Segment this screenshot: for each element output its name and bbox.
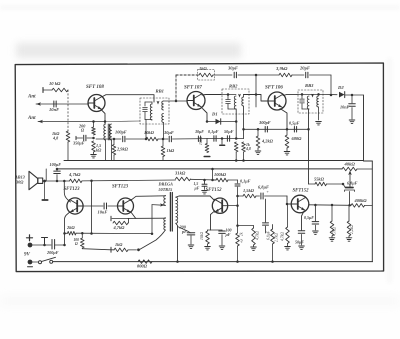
svg-text:SFT152: SFT152 (206, 188, 223, 193)
svg-text:kΩ: kΩ (96, 148, 102, 153)
svg-text:2k: 2k (240, 232, 244, 236)
svg-text:1kΩ: 1kΩ (115, 242, 123, 247)
svg-text:4,2kΩ: 4,2kΩ (261, 139, 274, 144)
svg-text:0,1µF: 0,1µF (240, 179, 251, 184)
svg-text:350µF: 350µF (72, 141, 85, 146)
svg-text:10 kΩ: 10 kΩ (49, 81, 61, 86)
svg-text:40kΩ: 40kΩ (344, 162, 356, 167)
svg-text:3,9kΩ: 3,9kΩ (275, 66, 288, 71)
svg-text:680Ω: 680Ω (292, 136, 303, 141)
svg-text:2,7kΩ: 2,7kΩ (275, 233, 280, 242)
svg-text:6,8µF: 6,8µF (347, 181, 358, 186)
svg-text:400kΩ: 400kΩ (354, 198, 368, 203)
svg-text:31kΩ: 31kΩ (174, 171, 186, 176)
svg-text:4,8: 4,8 (52, 136, 59, 141)
svg-text:4,8: 4,8 (245, 147, 251, 151)
svg-text:4,7kΩ: 4,7kΩ (256, 231, 261, 240)
svg-text:2,9kΩ: 2,9kΩ (116, 147, 129, 152)
svg-text:Ant: Ant (27, 95, 36, 100)
svg-text:RB1: RB1 (156, 89, 164, 94)
svg-text:30µF: 30µF (194, 129, 204, 134)
svg-text:1kΩ: 1kΩ (167, 148, 175, 153)
svg-text:100pF: 100pF (115, 130, 127, 135)
svg-text:Ω: Ω (75, 242, 78, 246)
svg-text:0,5µF: 0,5µF (304, 215, 314, 220)
svg-text:10nF: 10nF (49, 107, 59, 112)
svg-text:10kΩ: 10kΩ (144, 130, 155, 135)
svg-text:100kΩ: 100kΩ (214, 172, 227, 177)
svg-text:D1: D1 (211, 112, 218, 117)
svg-text:D2: D2 (337, 85, 344, 90)
svg-text:55kΩ: 55kΩ (314, 177, 325, 182)
svg-text:0,5µF: 0,5µF (289, 121, 300, 126)
svg-text:RB3: RB3 (305, 83, 314, 88)
svg-text:DREGA: DREGA (158, 182, 174, 187)
svg-text:0,1µF: 0,1µF (208, 129, 219, 134)
svg-text:800Ω: 800Ω (137, 264, 148, 269)
svg-text:100µF: 100µF (50, 162, 62, 167)
svg-text:2,2kΩ: 2,2kΩ (350, 225, 355, 234)
svg-text:2kΩ: 2kΩ (66, 225, 75, 230)
svg-text:50µF: 50µF (295, 240, 304, 245)
svg-text:4,7kΩ: 4,7kΩ (113, 225, 126, 230)
svg-text:4,7kΩ: 4,7kΩ (281, 232, 286, 241)
svg-text:10kΩ: 10kΩ (199, 137, 203, 145)
svg-text:Ant: Ant (27, 116, 36, 121)
svg-text:200µF: 200µF (46, 250, 59, 255)
svg-text:SFT123: SFT123 (64, 187, 81, 192)
svg-text:pF: pF (181, 229, 187, 234)
svg-text:300pF: 300pF (258, 120, 271, 125)
svg-text:SFT123: SFT123 (112, 185, 129, 190)
svg-text:SFT 106: SFT 106 (265, 86, 283, 91)
svg-text:20pF: 20pF (299, 66, 310, 71)
svg-text:RB2: RB2 (229, 84, 238, 89)
svg-text:50TR15: 50TR15 (159, 187, 173, 192)
svg-text:4,7kΩ: 4,7kΩ (333, 227, 338, 236)
svg-text:1,5kΩ: 1,5kΩ (243, 188, 255, 193)
svg-text:4,8: 4,8 (240, 238, 245, 243)
svg-text:+: + (267, 189, 270, 194)
svg-text:10nF: 10nF (98, 210, 108, 215)
svg-text:10nF: 10nF (340, 105, 350, 110)
svg-text:10kΩ: 10kΩ (200, 232, 204, 240)
svg-text:µF: µF (194, 187, 200, 191)
svg-text:30pF: 30pF (227, 66, 238, 71)
svg-text:1kΩ: 1kΩ (199, 66, 207, 71)
svg-text:1,5: 1,5 (194, 182, 199, 186)
svg-text:4,7kΩ: 4,7kΩ (68, 172, 81, 177)
svg-text:30µF: 30µF (163, 130, 174, 135)
svg-text:9V: 9V (24, 253, 31, 258)
svg-text:µF: µF (225, 232, 231, 237)
svg-text:SFT 107: SFT 107 (184, 86, 202, 91)
svg-text:SFT152: SFT152 (293, 189, 310, 194)
svg-text:SFT 108: SFT 108 (86, 85, 104, 90)
svg-text:30Ω: 30Ω (15, 180, 24, 185)
svg-text:50µF: 50µF (224, 129, 234, 134)
